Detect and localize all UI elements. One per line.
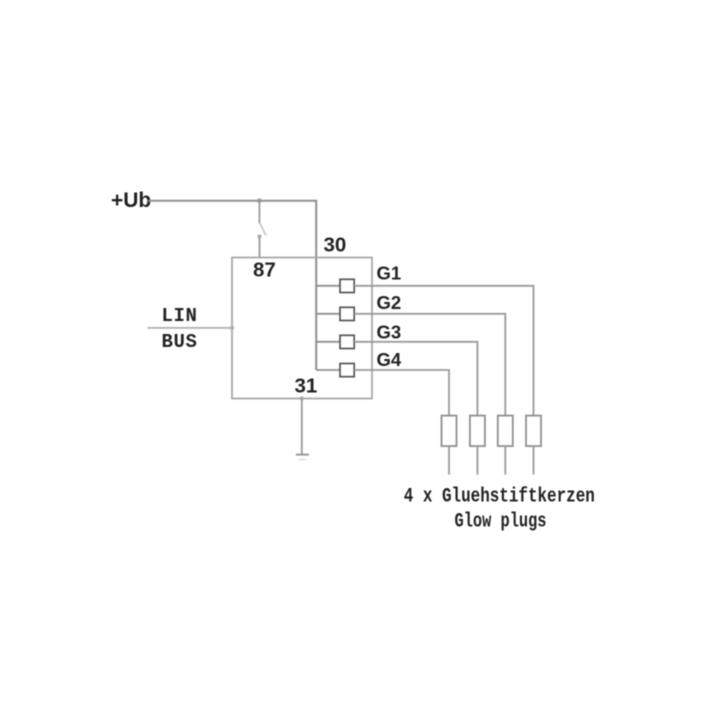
output stage square pin G2 <box>340 307 354 320</box>
ground <box>296 455 309 460</box>
svg-text:G1: G1 <box>377 263 402 284</box>
net LIN BUS label <box>162 305 198 353</box>
node pin 31 junction <box>300 396 304 400</box>
glow plug R2 body <box>470 416 485 447</box>
svg-text:Glow plugs: Glow plugs <box>455 511 547 534</box>
switch S1 lower contact dot <box>258 235 262 239</box>
svg-text:30: 30 <box>324 233 347 256</box>
switch S1 blade (open contact) <box>260 223 266 236</box>
svg-text:G2: G2 <box>377 292 402 313</box>
output stage square pin G4 <box>340 364 354 377</box>
wire below glow plug R2 <box>476 446 478 475</box>
svg-text:31: 31 <box>295 374 318 397</box>
svg-text:LIN: LIN <box>162 305 198 327</box>
wire switch upper lead <box>258 201 260 223</box>
wire G2 to glow plug 3 <box>354 314 505 416</box>
wire G1 stub <box>316 285 340 287</box>
caption Glow plugs <box>455 511 547 534</box>
wire below glow plug R1 <box>448 446 450 475</box>
svg-text:G4: G4 <box>377 349 402 370</box>
output G1 label <box>377 263 402 284</box>
wire below glow plug R4 <box>533 446 535 475</box>
wire G3 to glow plug 2 <box>354 342 477 416</box>
svg-text:G3: G3 <box>377 321 402 342</box>
wire +Ub horizontal <box>148 200 316 202</box>
svg-text:+Ub: +Ub <box>111 189 151 212</box>
glow plug R3 body <box>498 416 513 447</box>
wire G3 stub <box>316 341 340 343</box>
svg-text:BUS: BUS <box>162 331 198 353</box>
output stage square pin G1 <box>340 279 354 292</box>
wire LIN BUS <box>148 327 233 329</box>
wire G1 to glow plug 4 <box>354 286 533 416</box>
glow plug R4 body <box>526 416 541 447</box>
svg-text:87: 87 <box>253 258 276 281</box>
pin 31 label <box>295 374 318 397</box>
wire switch lower lead to pin 87 <box>259 238 261 258</box>
output stage square pin G3 <box>340 335 354 348</box>
output G4 label <box>377 349 402 370</box>
node LIN BUS at module <box>230 326 234 330</box>
output G3 label <box>377 321 402 342</box>
pin 30 label <box>324 233 347 256</box>
glow plug R1 body <box>442 416 457 447</box>
wire +Ub feed vertical (pin 30 bus) <box>315 200 317 370</box>
control module U1 box <box>232 258 372 399</box>
caption 4 x Gluehstiftkerzen <box>404 486 595 509</box>
pin 87 label <box>253 258 276 281</box>
wire pin 31 to ground <box>301 399 303 455</box>
wire G4 stub <box>316 369 340 371</box>
output G2 label <box>377 292 402 313</box>
svg-text:4 x Gluehstiftkerzen: 4 x Gluehstiftkerzen <box>404 486 595 509</box>
net +Ub label <box>111 189 151 212</box>
node junction on +Ub wire <box>257 198 262 203</box>
wire G4 to glow plug 1 <box>354 370 449 416</box>
wire below glow plug R3 <box>504 446 506 475</box>
wire G2 stub <box>316 313 340 315</box>
